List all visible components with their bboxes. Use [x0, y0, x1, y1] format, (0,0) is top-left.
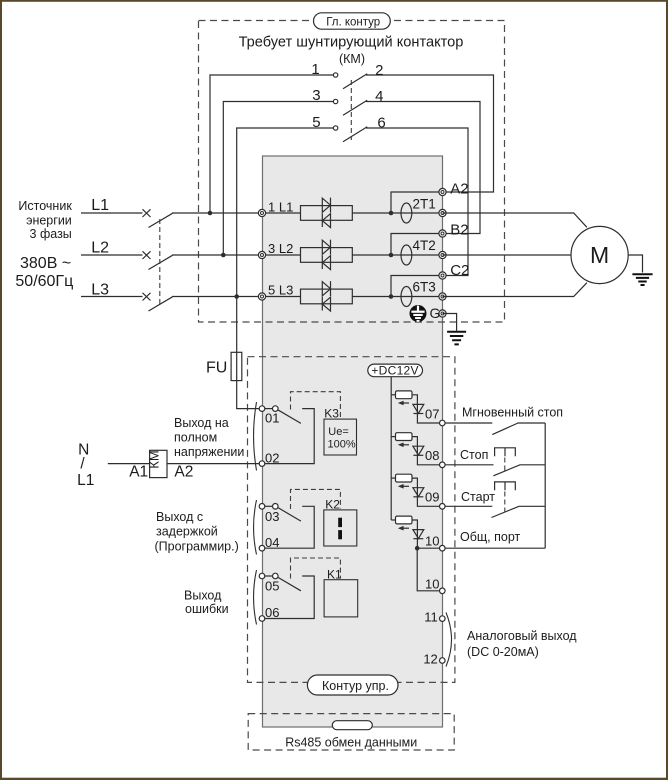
svg-text:09: 09	[425, 490, 439, 505]
svg-text:напряжении: напряжении	[174, 445, 244, 459]
svg-text:A2: A2	[450, 180, 468, 197]
svg-text:50/60Гц: 50/60Гц	[15, 273, 73, 290]
svg-text:A2: A2	[174, 464, 193, 481]
svg-text:Выход: Выход	[184, 589, 222, 603]
svg-text:5: 5	[312, 114, 320, 131]
svg-text:Стоп: Стоп	[460, 448, 488, 462]
svg-text:энергии: энергии	[26, 214, 72, 228]
svg-text:6T3: 6T3	[413, 279, 436, 294]
svg-text:(Программир.): (Программир.)	[155, 540, 239, 554]
svg-text:Мгновенный стоп: Мгновенный стоп	[462, 406, 563, 420]
svg-text:Выход на: Выход на	[174, 416, 229, 430]
svg-text:12: 12	[423, 652, 437, 667]
svg-text:задержкой: задержкой	[156, 525, 218, 539]
svg-text:L3: L3	[91, 282, 109, 299]
svg-text:(DC 0-20мА): (DC 0-20мА)	[467, 645, 539, 659]
svg-text:B2: B2	[450, 222, 468, 239]
svg-text:06: 06	[265, 605, 279, 620]
svg-text:Rs485 обмен данными: Rs485 обмен данными	[285, 736, 417, 750]
svg-text:A1: A1	[129, 464, 148, 481]
svg-text:/: /	[80, 456, 85, 473]
svg-text:4: 4	[375, 88, 383, 105]
svg-text:C2: C2	[450, 262, 469, 279]
svg-text:01: 01	[265, 411, 279, 426]
svg-text:полном: полном	[174, 431, 217, 445]
svg-text:КМ: КМ	[147, 450, 162, 468]
svg-text:Аналоговый выход: Аналоговый выход	[467, 629, 577, 643]
svg-text:02: 02	[265, 451, 279, 466]
svg-text:10: 10	[425, 534, 439, 549]
svg-text:6: 6	[377, 115, 385, 132]
svg-text:2T1: 2T1	[413, 196, 436, 211]
svg-text:380В ~: 380В ~	[20, 255, 71, 272]
svg-text:3 фазы: 3 фазы	[30, 227, 72, 241]
svg-text:ошибки: ошибки	[185, 602, 229, 616]
svg-text:Требует шунтирующий контактор: Требует шунтирующий контактор	[239, 35, 464, 51]
svg-text:Ue=: Ue=	[328, 426, 349, 438]
svg-text:100%: 100%	[328, 439, 356, 451]
svg-text:4T2: 4T2	[413, 238, 436, 253]
svg-text:04: 04	[265, 535, 279, 550]
svg-text:07: 07	[425, 406, 439, 421]
svg-text:5 L3: 5 L3	[268, 283, 293, 298]
svg-text:+DC12V: +DC12V	[371, 363, 419, 377]
svg-text:G: G	[430, 305, 441, 321]
svg-text:1: 1	[311, 61, 319, 78]
svg-text:Общ, порт: Общ, порт	[460, 530, 521, 544]
svg-text:3 L2: 3 L2	[268, 241, 293, 256]
svg-text:L1: L1	[91, 197, 109, 214]
svg-text:Выход с: Выход с	[156, 510, 203, 524]
svg-text:K3: K3	[324, 407, 339, 421]
svg-text:11: 11	[424, 610, 438, 625]
svg-text:Источник: Источник	[18, 199, 72, 213]
svg-text:Контур упр.: Контур упр.	[322, 679, 389, 693]
svg-text:08: 08	[425, 448, 439, 463]
svg-text:L1: L1	[77, 472, 94, 489]
svg-text:FU: FU	[206, 360, 227, 377]
svg-text:3: 3	[312, 87, 320, 104]
svg-text:L2: L2	[91, 239, 109, 256]
svg-text:10: 10	[425, 577, 439, 592]
svg-text:(КМ): (КМ)	[339, 52, 365, 66]
svg-text:03: 03	[265, 509, 279, 524]
svg-text:M: M	[590, 242, 609, 268]
svg-text:2: 2	[375, 62, 383, 79]
svg-text:1 L1: 1 L1	[268, 200, 293, 215]
svg-text:05: 05	[265, 579, 279, 594]
svg-text:Старт: Старт	[461, 490, 495, 504]
svg-text:Гл. контур: Гл. контур	[326, 17, 380, 29]
